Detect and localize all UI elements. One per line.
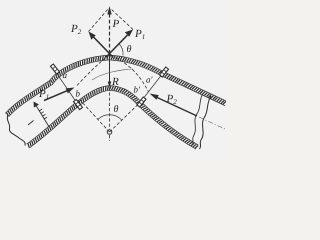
- wire: dashed radius line to right junction b': [110, 104, 140, 133]
- wire: inner pipe wall band (left pipe lower wall + bend inner arc + right pipe lower wall): [28, 88, 197, 147]
- wire: dash-dot centreline right pipe after arrow: [199, 117, 226, 130]
- wire: outer pipe wall band (left pipe + bend outer arc + right pipe): [7, 58, 226, 116]
- force P1 (solid arrow up-right): [110, 35, 128, 54]
- wire: dashed line of action from P1 to vertex: [77, 56, 109, 86]
- wire: vertical dashed centre line from vertex through R to centre C: [109, 56, 111, 129]
- svg-text:a′: a′: [146, 75, 154, 85]
- angle theta arc at vertex: [119, 44, 123, 55]
- flange a: [51, 64, 60, 74]
- radius arrow R (vertical, arrowhead down at inner arc): [109, 54, 111, 85]
- force P2 (solid arrow up-left): [94, 37, 110, 54]
- wire: dashed line of action from vertex to P2: [111, 56, 149, 93]
- vertex overshoot strokes: [106, 54, 110, 58]
- diameter arrow with tick marks in left pipe: [34, 102, 50, 128]
- left pipe break (wavy cut): [7, 115, 25, 146]
- flange a': [160, 67, 169, 77]
- wire: parallelogram dashed side P1tip to Ptip: [111, 9, 134, 30]
- angle theta arc at centre: [98, 115, 122, 120]
- svg-text:R: R: [111, 76, 119, 88]
- svg-text:θ: θ: [113, 104, 118, 115]
- node C: bend centre circle: [107, 130, 112, 135]
- wire: dashed radius line to left junction b: [80, 100, 110, 132]
- force P (resultant, dashed shaft, arrowhead up): [109, 12, 111, 54]
- right pipe break (wavy cut, double line): [192, 94, 203, 146]
- wire: parallelogram dashed side P2tip to Ptip: [89, 9, 109, 32]
- svg-text:P: P: [111, 18, 119, 30]
- svg-text:a: a: [62, 70, 67, 80]
- svg-text:b′: b′: [133, 85, 141, 95]
- faint centreline arc of the bend: [92, 69, 133, 80]
- arrow P2 in right pipe: [150, 94, 198, 117]
- svg-text:b: b: [75, 89, 80, 99]
- stray mark near left break: [28, 121, 34, 126]
- arrow P1 in left pipe: [44, 88, 75, 101]
- svg-text:θ: θ: [126, 44, 131, 55]
- flange b': [137, 97, 146, 107]
- flange b: [74, 100, 83, 110]
- junction line a'-b' (right): [139, 71, 165, 105]
- junction line a-b (left): [53, 68, 79, 106]
